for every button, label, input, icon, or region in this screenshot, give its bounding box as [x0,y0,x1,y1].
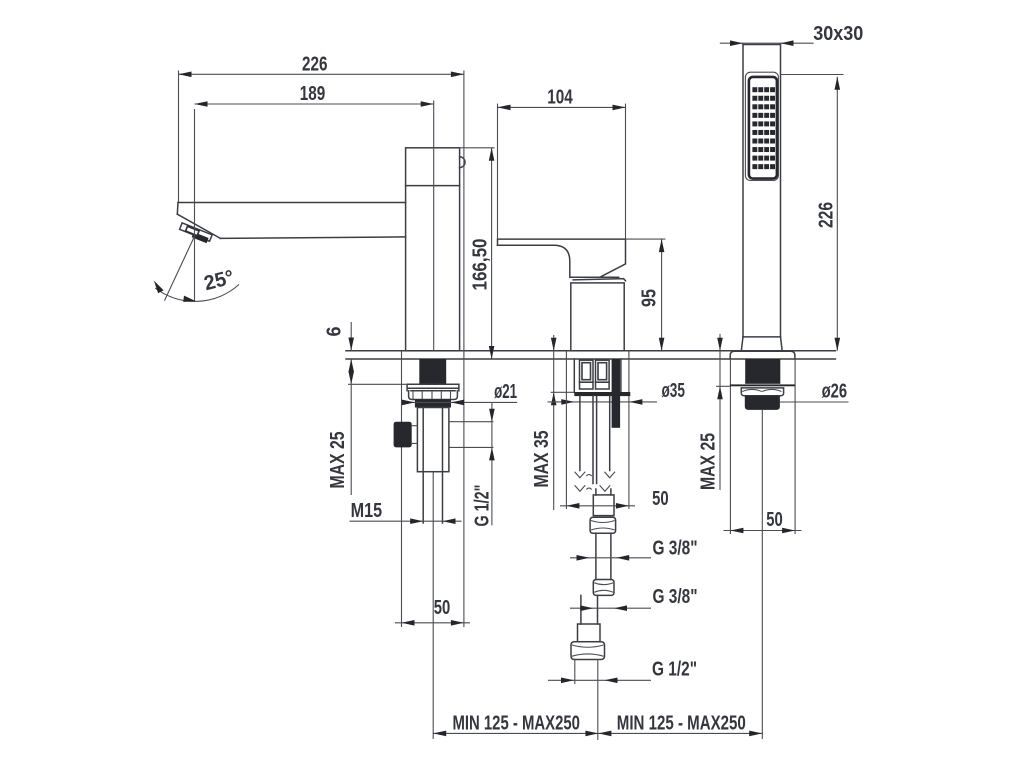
dim 6 (deck thickness) vertical line [350,322,352,350]
dim 189 line [195,103,434,105]
spout body seam line [406,185,460,187]
o21 right arrow [451,400,464,406]
dim 50 middle line [560,505,635,507]
dim 189 right extension / tube centerline upper [433,101,435,351]
95 down arrow [659,338,665,351]
svg-text:ø26: ø26 [822,380,848,403]
dim 226 left extension line [178,71,180,203]
spout top line [178,202,406,204]
hose line (handshower) [761,410,763,739]
bottom dim center arrows [585,731,598,737]
dim 104 left arrow [498,105,511,111]
cartridge cap lower line [573,279,625,281]
seal band (black) left unit [415,399,451,407]
95 up arrow [659,239,665,252]
spray face plate [749,77,777,179]
dim MAX25 left: line below deck [350,359,352,495]
25deg vertical ray / ext line of 189 [194,109,196,301]
svg-text:ø21: ø21 [494,380,517,403]
centerline below nut3 [597,660,599,741]
svg-text:MAX 35: MAX 35 [530,431,553,488]
svg-text:M15: M15 [351,499,383,522]
G1/2 middle leader [548,679,651,681]
svg-text:50: 50 [766,508,783,531]
ferrule 2 [578,624,601,642]
MAX35 extension line (washer top) [551,391,575,393]
G3/8 no.2 leader [570,607,651,609]
svg-text:30x30: 30x30 [813,22,863,45]
shank right line (middle) [620,359,622,392]
stud block right [596,360,610,382]
svg-text:166,50: 166,50 [468,239,491,291]
inner supply tube lines [422,408,424,524]
MAX25 right extension line [716,385,730,387]
svg-text:G 3/8": G 3/8" [653,585,698,608]
166,50 up arrow [489,148,495,161]
hole-left extension line (left unit) [401,351,403,627]
svg-text:G 1/2": G 1/2" [652,657,697,680]
M15 left arrow [410,518,423,524]
spout angled underside [177,214,220,238]
50 right arrows [730,528,743,534]
M15 right arrow [443,518,456,524]
spray face panel seam [745,72,778,180]
dim 166,50 line [491,148,493,359]
mixer body [571,283,624,351]
svg-text:50: 50 [434,596,451,619]
stud rod right below washer [609,396,611,470]
dim o21 leader [403,401,517,403]
dim 50 right line [724,530,802,532]
226 up arrow [835,77,841,90]
shank tube left unit [417,408,449,472]
dim 104 left extension [497,104,499,240]
svg-text:189: 189 [300,82,326,105]
svg-text:50: 50 [652,487,669,510]
dim 189 right arrow [421,101,434,107]
o35 left arrow [561,399,574,405]
dim 226 / hole right extension line [463,71,465,628]
166,50 down arrow [489,346,495,359]
mixer lever outline [498,239,626,277]
G1/2 left down arrow [489,409,495,422]
dim 50 left line [395,622,470,624]
MAX25 right up arrow [717,386,723,399]
knob bottom edge line right segment [449,446,494,448]
50 middle arrows [566,503,579,509]
hose tube to ferrule 1 [595,489,597,495]
spout left edge [176,203,179,215]
handshower handle right edge [780,45,782,337]
ribbed nut rib lines [413,391,451,400]
bottom dim right arrow [749,731,762,737]
svg-text:226: 226 [302,53,328,76]
MAX25 left up arrow [348,359,354,372]
25deg tilted ray [165,235,195,300]
spout body [406,148,460,351]
30x30 right arrow [781,40,794,46]
G1/2 left: vertical line with arrows [491,402,493,525]
line below nut3 left [574,660,576,685]
stud block left [580,360,594,382]
flange washer left unit [407,384,459,390]
svg-text:MIN 125 - MAX250: MIN 125 - MAX250 [452,711,580,734]
dim M15 line [350,520,462,522]
nut 2 (G3/8) [593,580,614,596]
bottom dim left arrow [433,731,446,737]
svg-text:104: 104 [547,85,573,108]
svg-text:G 1/2": G 1/2" [471,485,494,527]
spout body side button [460,157,465,168]
25deg arc [155,284,239,301]
holder escutcheon [730,351,795,359]
50 left arrows [402,620,415,626]
spray nozzle dash grid [752,87,775,169]
dim 226 line [179,73,464,75]
spout bottom line [220,237,405,239]
dim 189 left arrow [195,101,208,107]
226 down arrow [835,338,841,351]
dim o35 leader [548,401,658,403]
nut 3 (G1/2) [571,642,605,660]
mounting nut (black) left unit [419,359,446,385]
svg-text:MAX 25: MAX 25 [326,432,349,489]
dim 226 right arrow [451,72,464,78]
dim 104 right arrow [613,105,626,111]
30x30 left arrow [730,40,743,46]
diverter knob neck ticks [412,426,418,444]
dim MAX35 line [553,335,555,510]
ribbed fixing nut left unit [409,391,458,400]
deck bottom line [346,358,835,360]
hole-left extension line (middle) [565,351,567,509]
MAX25 right down arrow (above deck) [717,338,723,351]
seal band (black, handshower) [745,396,780,410]
hose pair upper (middle) [592,396,594,483]
svg-text:MIN 125 - MAX250: MIN 125 - MAX250 [617,711,746,734]
diverter rod (black bar) [612,359,621,428]
break mark row 1 [575,472,615,478]
hole-right extension line (middle) [628,351,630,509]
handle flare to holder [741,337,782,351]
fixing nut (handshower) [741,388,783,396]
dim MAX25 right line [719,334,721,490]
MAX25 left down arrow [348,371,354,384]
25deg arc left arrowhead [154,281,164,294]
166,50 top extension (body top extended) [460,147,495,149]
handshower dim 226 line [836,77,838,351]
dim 226 left arrow [179,72,192,78]
handshower handle bottom seam [743,336,781,338]
G3/8 no.1 leader [570,557,651,559]
hose tube between nut1 and nut2 [595,533,597,579]
o35 right arrow [629,399,642,405]
horseshoe washer (black band, middle) [574,392,630,396]
dim 6 down arrow [348,338,354,351]
handshower handle left edge [742,45,744,337]
threaded shank (black) handshower [745,359,780,384]
nut 1 (G3/8) [590,517,616,533]
washer (handshower) [730,384,795,386]
handshower handle top cap [743,44,781,46]
MAX35 down arrow (above deck) [551,338,557,351]
washer-top extension to left [348,383,407,385]
dim 104 line [498,106,626,108]
cartridge cap top line [570,276,619,278]
MAX35 up arrow (below) [551,392,557,405]
handshower dim 30x30 line [720,42,814,44]
knob top edge line right segment [449,421,494,423]
aerator (tilted outlet) [178,223,212,244]
diverter knob (black) [394,422,412,448]
break mark row 2 [575,485,611,491]
95 top extension (lever top extended) [626,238,666,240]
centerline below shank left unit [432,472,434,739]
G1/2 left up arrow [489,447,495,460]
stud rod left below washer [579,396,581,470]
deck top line [346,350,835,352]
svg-text:95: 95 [637,289,660,307]
dim 104 right extension [625,104,627,240]
hole-left extension (handshower) [729,359,731,534]
svg-text:6: 6 [323,327,346,337]
svg-text:MAX 25: MAX 25 [697,433,720,490]
o26 leader [780,401,849,403]
shank left line (middle) [573,359,575,392]
svg-text:226: 226 [814,202,837,228]
hose tube below nut2 (shifted left) [580,595,582,624]
hole-right extension (handshower) [794,359,796,534]
bottom dim line MIN125-MAX250 [433,732,762,734]
svg-text:G 3/8": G 3/8" [653,537,698,560]
ferrule 1 [593,495,614,516]
226 top extension [781,74,844,76]
25deg arc right arrowhead [183,296,196,302]
o21 left arrow [402,400,415,406]
svg-text:ø35: ø35 [661,379,685,402]
dim 95 line [661,239,663,351]
lever underside with radius [498,245,570,277]
